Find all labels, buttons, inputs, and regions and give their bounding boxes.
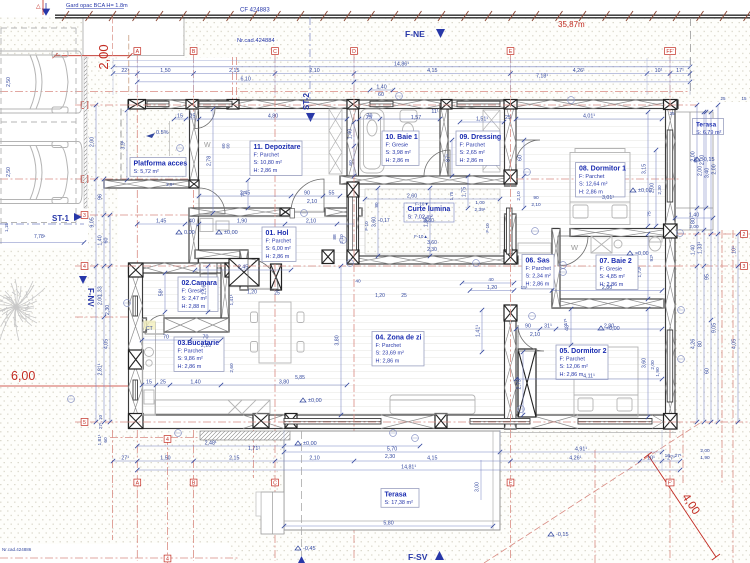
svg-text:60: 60 [104, 238, 110, 244]
svg-text:2,10: 2,10 [306, 219, 316, 225]
svg-text:25: 25 [669, 111, 675, 116]
svg-text:1,90: 1,90 [700, 455, 710, 461]
svg-text:S: 17,38 m²: S: 17,38 m² [385, 500, 414, 506]
svg-text:70: 70 [163, 335, 169, 341]
svg-text:25: 25 [720, 96, 726, 101]
svg-text:31¹: 31¹ [544, 324, 552, 330]
svg-text:25: 25 [274, 291, 280, 297]
svg-text:87¹: 87¹ [446, 154, 452, 162]
svg-text:1,51¹: 1,51¹ [476, 117, 488, 123]
svg-text:60: 60 [226, 143, 231, 149]
svg-text:2,15: 2,15 [229, 68, 239, 74]
svg-text:75: 75 [647, 211, 653, 217]
svg-text:1,90: 1,90 [655, 367, 661, 377]
svg-text:3,60: 3,60 [427, 240, 437, 246]
svg-text:90: 90 [304, 191, 310, 197]
svg-text:2,30: 2,30 [385, 454, 395, 460]
svg-text:Terasa: Terasa [696, 122, 717, 129]
svg-text:ST-2: ST-2 [302, 93, 311, 110]
svg-text:1,40: 1,40 [348, 129, 354, 139]
svg-text:C: C [273, 49, 277, 55]
svg-text:1,71¹: 1,71¹ [248, 446, 260, 452]
svg-text:60: 60 [103, 437, 109, 443]
svg-text:4,80: 4,80 [268, 114, 278, 120]
svg-text:S: 6,00 m²: S: 6,00 m² [266, 246, 292, 252]
svg-text:Platforma acces: Platforma acces [134, 161, 188, 168]
svg-text:5,70: 5,70 [387, 447, 397, 453]
svg-text:-0,17: -0,17 [378, 218, 390, 224]
svg-text:E: E [509, 481, 513, 487]
svg-text:17¹: 17¹ [676, 68, 684, 74]
svg-text:Nr.cad.424884: Nr.cad.424884 [237, 38, 275, 44]
svg-text:25: 25 [401, 293, 407, 299]
svg-text:70: 70 [367, 114, 373, 120]
svg-text:1,33¹: 1,33¹ [698, 242, 704, 254]
svg-text:4,15: 4,15 [427, 456, 437, 462]
svg-text:10,: 10, [665, 453, 672, 459]
svg-text:1,75: 1,75 [449, 191, 454, 200]
svg-text:3,80: 3,80 [335, 335, 341, 345]
svg-text:D: D [352, 49, 356, 55]
svg-text:4: 4 [83, 264, 86, 270]
svg-text:1,57: 1,57 [411, 115, 421, 121]
svg-text:H: 2,86 m: H: 2,86 m [386, 158, 410, 164]
svg-text:3,60: 3,60 [642, 358, 648, 368]
svg-text:3: 3 [83, 213, 86, 219]
svg-text:07. Baie 2: 07. Baie 2 [600, 258, 632, 265]
svg-text:04. Zona de zi: 04. Zona de zi [376, 335, 422, 342]
svg-text:2,10: 2,10 [309, 68, 319, 74]
svg-text:03.Bucatarie: 03.Bucatarie [178, 340, 220, 347]
svg-text:2,00: 2,00 [712, 164, 718, 174]
svg-text:≈0,00: ≈0,00 [635, 251, 649, 257]
svg-text:88: 88 [332, 234, 338, 240]
svg-text:3,80: 3,80 [279, 380, 289, 386]
svg-text:17¹: 17¹ [563, 318, 569, 325]
svg-text:1,40: 1,40 [376, 85, 386, 91]
svg-text:25: 25 [190, 114, 196, 120]
svg-text:2,30: 2,30 [105, 305, 111, 315]
svg-text:08. Dormitor 1: 08. Dormitor 1 [579, 166, 626, 173]
svg-text:H: 2,88 m: H: 2,88 m [182, 304, 206, 310]
svg-text:A: A [136, 481, 140, 487]
svg-text:4,26¹: 4,26¹ [573, 68, 585, 74]
svg-text:2,30: 2,30 [657, 185, 663, 195]
svg-text:1,16¹: 1,16¹ [202, 283, 208, 295]
svg-text:A: A [136, 49, 140, 55]
svg-text:F: Parchet: F: Parchet [376, 343, 402, 349]
svg-text:90: 90 [533, 195, 539, 201]
svg-text:2,15: 2,15 [229, 456, 239, 462]
svg-text:55: 55 [329, 191, 335, 197]
svg-text:6,10: 6,10 [240, 76, 250, 82]
svg-text:35,87m: 35,87m [558, 20, 585, 29]
svg-text:±0,00: ±0,00 [308, 398, 322, 404]
svg-text:2,00: 2,00 [90, 137, 96, 147]
svg-text:±0,00: ±0,00 [224, 230, 238, 236]
svg-text:60: 60 [348, 160, 354, 166]
svg-text:Gard opac BCA H= 1.8m: Gard opac BCA H= 1.8m [66, 3, 128, 9]
svg-text:2,48¹: 2,48¹ [205, 441, 217, 447]
svg-text:2,79¹: 2,79¹ [517, 377, 523, 389]
svg-text:S: 5,72 m²: S: 5,72 m² [134, 169, 160, 175]
svg-text:S: 12,06 m²: S: 12,06 m² [560, 364, 589, 370]
svg-text:W: W [204, 142, 211, 149]
svg-text:W: W [571, 243, 579, 252]
svg-text:2,80: 2,80 [602, 285, 612, 291]
svg-text:4,11¹: 4,11¹ [583, 374, 595, 380]
svg-text:Curte lumina: Curte lumina [408, 206, 451, 213]
svg-text:27¹, 10: 27¹, 10 [98, 415, 103, 430]
svg-text:B: B [192, 481, 196, 487]
svg-text:E: E [509, 49, 513, 55]
svg-text:2,50: 2,50 [6, 167, 12, 177]
svg-text:1,41¹: 1,41¹ [476, 325, 482, 337]
svg-text:4,15: 4,15 [427, 68, 437, 74]
svg-text:4,26: 4,26 [691, 339, 697, 349]
svg-text:2,60: 2,60 [407, 194, 417, 200]
svg-text:70: 70 [203, 335, 209, 341]
svg-text:F-10: F-10 [364, 221, 369, 231]
svg-text:3,40: 3,40 [705, 168, 711, 178]
svg-text:H: 2,86 m: H: 2,86 m [376, 358, 400, 364]
svg-text:△: △ [36, 4, 41, 10]
svg-text:1,20: 1,20 [247, 290, 257, 296]
svg-text:15: 15 [741, 96, 747, 101]
svg-text:09. Dressing: 09. Dressing [460, 134, 502, 141]
svg-text:S: 23,69 m²: S: 23,69 m² [376, 351, 405, 357]
svg-text:14,81¹: 14,81¹ [401, 465, 416, 471]
svg-text:2,10: 2,10 [530, 332, 540, 338]
svg-text:2: 2 [743, 232, 746, 238]
svg-text:5: 5 [83, 420, 86, 426]
svg-text:2,00: 2,00 [96, 44, 111, 69]
svg-text:5,80: 5,80 [383, 521, 393, 527]
svg-text:F: Parchet: F: Parchet [579, 174, 605, 180]
svg-text:6,00: 6,00 [11, 369, 35, 383]
svg-text:1,50: 1,50 [160, 456, 170, 462]
svg-text:H: 2,86 m: H: 2,86 m [579, 189, 603, 195]
svg-text:1,41¹: 1,41¹ [229, 294, 235, 305]
svg-text:2,10: 2,10 [309, 456, 319, 462]
svg-text:06. Sas: 06. Sas [526, 258, 550, 265]
svg-text:10¹: 10¹ [647, 456, 655, 462]
svg-text:2,00: 2,00 [689, 224, 699, 230]
svg-text:96: 96 [98, 194, 104, 200]
svg-text:-0,45: -0,45 [303, 546, 316, 552]
svg-text:27¹: 27¹ [675, 453, 682, 459]
svg-text:58¹: 58¹ [159, 288, 165, 296]
svg-text:3,01¹: 3,01¹ [602, 195, 614, 201]
svg-text:F-NV: F-NV [86, 288, 95, 307]
svg-text:2,30: 2,30 [427, 247, 437, 253]
svg-text:2,78: 2,78 [207, 156, 213, 166]
svg-text:3,00: 3,00 [475, 482, 481, 492]
svg-text:2,00: 2,00 [650, 183, 656, 193]
svg-text:4: 4 [166, 557, 169, 563]
svg-text:1,40: 1,40 [190, 380, 200, 386]
svg-text:9,05: 9,05 [712, 323, 718, 333]
svg-text:Terasa: Terasa [385, 492, 407, 499]
svg-text:4: 4 [166, 437, 169, 443]
svg-text:40: 40 [488, 277, 494, 283]
svg-text:1,73¹: 1,73¹ [637, 266, 643, 277]
svg-text:60: 60 [705, 368, 711, 374]
svg-text:2,10: 2,10 [516, 191, 522, 201]
svg-text:3,60: 3,60 [372, 217, 378, 227]
svg-text:15: 15 [177, 114, 183, 120]
svg-text:4,91¹: 4,91¹ [575, 447, 587, 453]
svg-text:7,18¹: 7,18¹ [536, 74, 548, 80]
svg-text:2,00: 2,00 [700, 155, 706, 165]
svg-text:4,05: 4,05 [732, 339, 738, 349]
svg-text:15: 15 [146, 380, 152, 386]
svg-text:F: Parchet: F: Parchet [254, 152, 280, 158]
svg-text:1,90: 1,90 [237, 219, 247, 225]
svg-text:01. Hol: 01. Hol [266, 230, 289, 237]
svg-text:FF′: FF′ [666, 49, 673, 55]
svg-text:1,20: 1,20 [487, 285, 497, 291]
svg-text:F′: F′ [668, 481, 672, 487]
svg-text:3,9¹: 3,9¹ [121, 140, 127, 149]
svg-text:S: 10,80 m²: S: 10,80 m² [254, 160, 283, 166]
svg-text:15¹: 15¹ [521, 285, 528, 291]
svg-text:S: 12,64 m²: S: 12,64 m² [579, 182, 608, 188]
svg-text:S: 6,79 m²: S: 6,79 m² [696, 130, 722, 136]
svg-text:80: 80 [691, 218, 697, 224]
svg-text:F: Parchet: F: Parchet [526, 266, 552, 272]
svg-text:1,45: 1,45 [156, 219, 166, 225]
svg-text:H: 2,86 m: H: 2,86 m [526, 281, 550, 287]
svg-text:2,60: 2,60 [229, 363, 235, 373]
svg-text:9,05: 9,05 [90, 217, 96, 227]
svg-text:10¹: 10¹ [655, 68, 663, 74]
svg-text:F: Parchet: F: Parchet [178, 348, 204, 354]
svg-text:S: 3,98 m²: S: 3,98 m² [386, 150, 412, 156]
svg-text:4,05: 4,05 [104, 339, 110, 349]
svg-text:60: 60 [378, 92, 384, 98]
svg-text:H: 2,86 m: H: 2,86 m [460, 158, 484, 164]
svg-text:F-10▼: F-10▼ [415, 202, 429, 207]
svg-text:CF 424883: CF 424883 [240, 8, 270, 14]
svg-text:40: 40 [355, 279, 361, 285]
svg-text:05. Dormitor 2: 05. Dormitor 2 [560, 348, 607, 355]
svg-text:2,10: 2,10 [201, 343, 211, 349]
svg-text:3: 3 [743, 264, 746, 270]
svg-text:S: 4,85 m²: S: 4,85 m² [600, 274, 626, 280]
svg-text:1,40: 1,40 [691, 245, 697, 255]
svg-text:1,15: 1,15 [4, 223, 9, 232]
svg-text:F: Gresie: F: Gresie [600, 266, 623, 272]
svg-text:F: Parchet: F: Parchet [560, 356, 586, 362]
svg-text:2,39¹: 2,39¹ [475, 207, 486, 213]
svg-text:CT: CT [146, 326, 153, 332]
svg-text:2,50: 2,50 [6, 77, 12, 87]
svg-text:3,15: 3,15 [642, 164, 648, 174]
svg-text:2,00: 2,00 [698, 166, 704, 176]
svg-text:2,10: 2,10 [307, 199, 317, 205]
svg-text:F-SV: F-SV [408, 552, 428, 562]
svg-text:80: 80 [374, 202, 379, 208]
svg-text:0.00: 0.00 [184, 230, 195, 236]
svg-text:S: 2,34 m²: S: 2,34 m² [526, 274, 552, 280]
svg-text:H: 2,86 m: H: 2,86 m [178, 364, 202, 370]
svg-text:02.Camara: 02.Camara [182, 280, 218, 287]
svg-text:4,01¹: 4,01¹ [583, 114, 595, 120]
svg-text:3,80: 3,80 [424, 218, 434, 224]
svg-text:S: 2,47 m²: S: 2,47 m² [182, 296, 208, 302]
svg-text:3,9¹: 3,9¹ [166, 182, 174, 187]
svg-text:2,00: 2,00 [700, 448, 710, 454]
svg-text:F: Gresie: F: Gresie [386, 142, 409, 148]
svg-text:1,75: 1,75 [462, 187, 468, 197]
svg-text:7,78¹: 7,78¹ [34, 234, 46, 240]
svg-text:2,00: 2,00 [98, 295, 104, 305]
svg-text:25: 25 [505, 115, 511, 121]
svg-text:ST-1: ST-1 [52, 214, 69, 223]
svg-text:2,81¹: 2,81¹ [98, 363, 104, 375]
svg-text:60: 60 [518, 155, 524, 161]
svg-text:80: 80 [693, 157, 699, 163]
svg-text:75: 75 [242, 191, 248, 197]
svg-text:14,86¹: 14,86¹ [394, 62, 409, 68]
svg-text:2,45: 2,45 [238, 265, 248, 271]
svg-text:1,40: 1,40 [689, 213, 699, 219]
svg-text:92¹: 92¹ [649, 254, 655, 261]
svg-text:F-NE: F-NE [405, 29, 425, 39]
svg-text:11¹: 11¹ [431, 109, 438, 115]
svg-text:90: 90 [525, 324, 531, 330]
svg-text:0.5%: 0.5% [156, 130, 169, 136]
svg-text:4,26¹: 4,26¹ [569, 456, 581, 462]
svg-text:27¹: 27¹ [121, 456, 129, 462]
svg-text:H: 2,86 m: H: 2,86 m [266, 254, 290, 260]
svg-text:S: 9,86 m²: S: 9,86 m² [178, 356, 204, 362]
svg-text:F-10▲: F-10▲ [414, 234, 428, 239]
svg-text:H: 2,86 m: H: 2,86 m [254, 168, 278, 174]
svg-text:C: C [273, 481, 277, 487]
svg-text:B: B [192, 49, 196, 55]
svg-text:2,80: 2,80 [604, 324, 614, 330]
svg-text:25: 25 [160, 380, 166, 386]
svg-text:40: 40 [189, 219, 195, 225]
svg-text:1,50: 1,50 [160, 68, 170, 74]
svg-text:5,85: 5,85 [295, 375, 305, 381]
svg-text:11. Depozitare: 11. Depozitare [254, 144, 301, 151]
svg-text:F: Parchet: F: Parchet [266, 238, 292, 244]
svg-text:Nr.cad.424886: Nr.cad.424886 [2, 547, 32, 552]
svg-text:10. Baie 1: 10. Baie 1 [386, 134, 418, 141]
svg-text:1,00: 1,00 [475, 200, 485, 206]
svg-text:95: 95 [705, 274, 711, 280]
svg-text:10¹: 10¹ [732, 246, 738, 254]
svg-text:2,10: 2,10 [531, 202, 541, 208]
svg-text:22¹: 22¹ [121, 68, 129, 74]
svg-text:S: 2,65 m²: S: 2,65 m² [460, 150, 486, 156]
svg-text:80: 80 [698, 341, 704, 347]
svg-text:F: Parchet: F: Parchet [460, 142, 486, 148]
svg-text:-0,15: -0,15 [556, 532, 569, 538]
svg-text:1,20: 1,20 [375, 293, 385, 299]
svg-text:H: 2,86 m: H: 2,86 m [560, 372, 584, 378]
svg-text:1,81¹: 1,81¹ [97, 434, 103, 445]
svg-text:F-10: F-10 [485, 223, 490, 233]
